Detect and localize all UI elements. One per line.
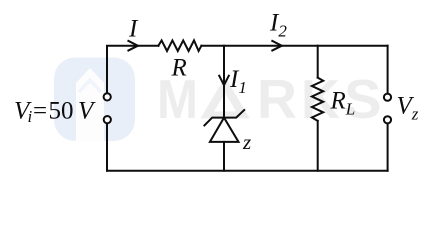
zener diode Z bar — [204, 110, 244, 125]
wire RL branch upper — [317, 46, 319, 78]
watermark letter A triangle — [201, 77, 250, 118]
wire left vertical lower — [106, 124, 108, 171]
wire right vertical lower — [387, 124, 389, 170]
svg-text:=: = — [33, 97, 47, 124]
terminal Vi bottom — [104, 116, 111, 123]
logo white arrow band — [76, 68, 104, 141]
arrow current I1 — [219, 76, 229, 86]
wire RL branch lower — [317, 121, 319, 171]
wire zener branch lower — [223, 142, 225, 171]
arrow current I2 — [272, 41, 282, 51]
wire right vertical upper — [387, 46, 389, 93]
zener diode Z triangle — [210, 118, 239, 142]
wire bottom — [107, 170, 388, 172]
svg-text:R: R — [171, 55, 187, 82]
wire top-left segment — [107, 46, 158, 92]
terminal Vz bottom — [384, 116, 391, 123]
wire top middle segment — [201, 45, 387, 47]
logo chevron — [79, 80, 101, 92]
svg-text:R: R — [257, 68, 297, 130]
svg-text:I2: I2 — [269, 9, 287, 40]
svg-text:z: z — [242, 130, 251, 154]
resistor RL — [312, 78, 323, 121]
wire zener branch upper — [223, 46, 225, 118]
logo rounded square — [54, 58, 135, 142]
svg-text:I1: I1 — [229, 66, 247, 97]
terminal Vz top — [384, 94, 391, 101]
svg-text:i: i — [28, 107, 33, 126]
arrow current I — [128, 41, 138, 51]
svg-text:Vz: Vz — [397, 93, 419, 124]
svg-text:50: 50 — [49, 97, 74, 124]
resistor R — [158, 40, 201, 51]
watermark logo square — [54, 58, 135, 142]
terminal Vi top — [104, 93, 111, 100]
watermark text MARKS — [157, 68, 382, 130]
svg-text:I: I — [128, 16, 139, 43]
